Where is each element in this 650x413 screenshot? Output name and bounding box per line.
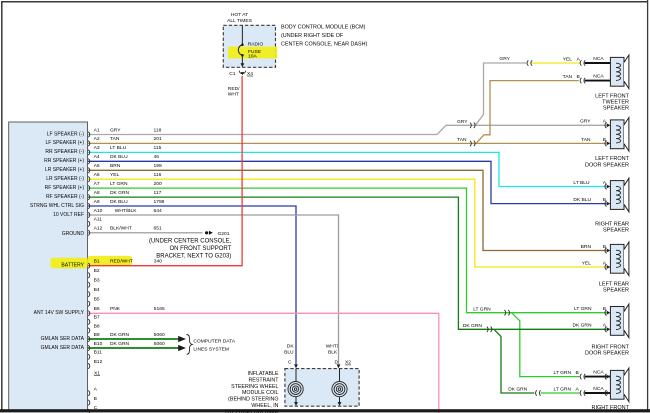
svg-text:C: C xyxy=(288,360,292,366)
svg-text:ON FRONT SUPPORT: ON FRONT SUPPORT xyxy=(170,246,232,252)
svg-text:SPEAKER: SPEAKER xyxy=(603,228,629,234)
svg-text:TAN: TAN xyxy=(110,136,120,142)
svg-text:RR SPEAKER (-): RR SPEAKER (-) xyxy=(45,149,84,155)
svg-text:LT GRN: LT GRN xyxy=(473,306,491,312)
svg-text:NCA: NCA xyxy=(593,370,604,376)
svg-text:RED/WHT: RED/WHT xyxy=(110,259,133,265)
svg-text:RIGHT REAR: RIGHT REAR xyxy=(595,222,629,228)
svg-text:LR SPEAKER (+): LR SPEAKER (+) xyxy=(45,167,84,173)
svg-text:LINES SYSTEM: LINES SYSTEM xyxy=(193,347,229,353)
svg-text:LT GRN: LT GRN xyxy=(554,386,572,392)
svg-text:A: A xyxy=(94,386,98,392)
svg-text:644: 644 xyxy=(154,208,162,214)
svg-text:TWEETER: TWEETER xyxy=(602,100,629,106)
svg-text:GMLAN SER DATA: GMLAN SER DATA xyxy=(41,345,85,351)
svg-text:B12: B12 xyxy=(94,359,103,365)
svg-text:BLK: BLK xyxy=(328,350,338,356)
svg-text:10A: 10A xyxy=(248,54,257,60)
svg-text:116: 116 xyxy=(154,172,162,178)
svg-text:NCA: NCA xyxy=(593,56,604,62)
svg-text:117: 117 xyxy=(154,190,162,196)
svg-text:LR SPEAKER (-): LR SPEAKER (-) xyxy=(46,176,84,182)
svg-text:ALL TIMES: ALL TIMES xyxy=(227,18,252,24)
svg-text:A: A xyxy=(603,260,607,266)
svg-text:YEL: YEL xyxy=(582,260,592,266)
svg-text:B3: B3 xyxy=(94,278,100,284)
svg-text:5060: 5060 xyxy=(154,332,165,338)
svg-text:651: 651 xyxy=(154,226,162,232)
svg-text:DOOR SPEAKER: DOOR SPEAKER xyxy=(585,162,629,168)
svg-text:B: B xyxy=(603,137,606,143)
svg-text:A: A xyxy=(603,323,607,329)
svg-text:118: 118 xyxy=(154,127,162,133)
svg-text:A: A xyxy=(577,56,581,62)
svg-text:STEERING WHEEL: STEERING WHEEL xyxy=(231,384,278,390)
svg-text:NCA: NCA xyxy=(593,386,604,392)
svg-text:B: B xyxy=(576,370,579,376)
svg-text:201: 201 xyxy=(154,136,162,142)
svg-text:B: B xyxy=(94,396,97,402)
svg-text:YEL: YEL xyxy=(110,172,120,178)
svg-text:5060: 5060 xyxy=(154,341,165,347)
svg-text:LT GRN: LT GRN xyxy=(554,370,572,376)
svg-text:A4: A4 xyxy=(94,154,100,160)
svg-text:RADIO: RADIO xyxy=(248,42,264,48)
svg-text:DK BLU: DK BLU xyxy=(110,154,128,160)
svg-text:B8: B8 xyxy=(94,323,100,329)
svg-text:WHT/BLK: WHT/BLK xyxy=(115,208,137,214)
svg-text:B9: B9 xyxy=(94,332,100,338)
svg-text:G201: G201 xyxy=(218,231,230,237)
svg-text:DK BLU: DK BLU xyxy=(110,199,128,205)
svg-text:PNK: PNK xyxy=(110,306,121,312)
svg-text:NCA: NCA xyxy=(593,74,604,80)
svg-text:D: D xyxy=(335,360,339,366)
svg-text:LT BLU: LT BLU xyxy=(110,145,127,151)
svg-text:ANT 14V SW SUPPLY: ANT 14V SW SUPPLY xyxy=(34,310,85,316)
svg-text:DK GRN: DK GRN xyxy=(110,190,129,196)
svg-text:B: B xyxy=(603,197,606,203)
svg-text:A: A xyxy=(576,386,580,392)
svg-text:MODULE COIL: MODULE COIL xyxy=(242,390,279,396)
svg-text:BODY CONTROL MODULE (BCM): BODY CONTROL MODULE (BCM) xyxy=(281,24,366,30)
svg-text:1798: 1798 xyxy=(154,199,165,205)
svg-text:C1: C1 xyxy=(229,71,236,77)
svg-text:A1: A1 xyxy=(94,127,100,133)
svg-text:A: A xyxy=(603,119,607,125)
svg-text:B2: B2 xyxy=(94,268,100,274)
svg-text:DOOR SPEAKER: DOOR SPEAKER xyxy=(585,351,629,357)
svg-text:(UNDER RIGHT SIDE OF: (UNDER RIGHT SIDE OF xyxy=(281,33,344,39)
svg-text:GMLAN SER DATA: GMLAN SER DATA xyxy=(41,336,85,342)
svg-text:INFLATABLE: INFLATABLE xyxy=(247,371,278,377)
svg-text:RIGHT FRONT: RIGHT FRONT xyxy=(592,405,630,411)
svg-text:B11: B11 xyxy=(94,350,103,356)
svg-text:A7: A7 xyxy=(94,181,100,187)
svg-text:WHT: WHT xyxy=(228,91,239,97)
svg-text:WHEEL, IN: WHEEL, IN xyxy=(251,403,278,409)
svg-text:LEFT FRONT: LEFT FRONT xyxy=(595,93,629,99)
svg-text:200: 200 xyxy=(154,181,162,187)
svg-text:CENTER CONSOLE, NEAR DASH): CENTER CONSOLE, NEAR DASH) xyxy=(281,41,367,47)
svg-text:LEFT FRONT: LEFT FRONT xyxy=(595,156,629,162)
svg-text:LT BLU: LT BLU xyxy=(573,180,590,186)
svg-text:A8: A8 xyxy=(94,190,100,196)
svg-text:LF SPEAKER (+): LF SPEAKER (+) xyxy=(46,140,85,146)
svg-text:B: B xyxy=(603,306,606,312)
svg-text:BATTERY: BATTERY xyxy=(61,263,84,269)
svg-text:WHT/: WHT/ xyxy=(326,344,339,350)
svg-text:LT GRN: LT GRN xyxy=(574,306,592,312)
svg-text:GRY: GRY xyxy=(499,56,510,62)
svg-text:RED/: RED/ xyxy=(228,86,240,92)
svg-text:A12: A12 xyxy=(94,226,103,232)
svg-text:46: 46 xyxy=(154,154,160,160)
svg-text:DK GRN: DK GRN xyxy=(110,341,129,347)
svg-text:TAN: TAN xyxy=(457,137,467,143)
svg-text:TAN: TAN xyxy=(581,137,591,143)
svg-text:B7: B7 xyxy=(94,315,100,321)
svg-text:B10: B10 xyxy=(94,341,103,347)
svg-text:RR SPEAKER (+): RR SPEAKER (+) xyxy=(44,158,84,164)
svg-text:(UNDER CENTER CONSOLE,: (UNDER CENTER CONSOLE, xyxy=(149,238,232,244)
svg-text:RF SPEAKER (+): RF SPEAKER (+) xyxy=(45,185,85,191)
svg-text:SPEAKER: SPEAKER xyxy=(603,288,629,294)
svg-text:BRN: BRN xyxy=(581,244,592,250)
svg-text:DK BLU: DK BLU xyxy=(573,197,591,203)
svg-text:5165: 5165 xyxy=(154,306,165,312)
svg-text:BRN: BRN xyxy=(110,163,121,169)
svg-text:10 VOLT REF: 10 VOLT REF xyxy=(53,212,84,218)
svg-text:HOT AT: HOT AT xyxy=(231,12,248,18)
svg-text:B: B xyxy=(577,74,580,80)
svg-text:GRY: GRY xyxy=(110,127,121,133)
svg-text:COMPUTER DATA: COMPUTER DATA xyxy=(193,339,235,345)
svg-text:DK GRN: DK GRN xyxy=(463,323,482,329)
svg-text:A5: A5 xyxy=(94,163,100,169)
svg-text:A11: A11 xyxy=(94,217,103,223)
svg-text:B: B xyxy=(603,244,606,250)
svg-text:A9: A9 xyxy=(94,199,100,205)
svg-text:DK: DK xyxy=(287,344,295,350)
svg-text:LF SPEAKER (-): LF SPEAKER (-) xyxy=(47,131,85,137)
svg-text:BLU: BLU xyxy=(284,350,294,356)
svg-text:B6: B6 xyxy=(94,306,100,312)
svg-text:DK GRN: DK GRN xyxy=(110,332,129,338)
svg-text:GRY: GRY xyxy=(580,119,591,125)
svg-text:RESTRAINT: RESTRAINT xyxy=(248,377,279,383)
svg-text:GROUND: GROUND xyxy=(62,231,85,237)
svg-text:A10: A10 xyxy=(94,208,103,214)
svg-text:A6: A6 xyxy=(94,172,100,178)
svg-text:B1: B1 xyxy=(94,259,100,265)
svg-text:DK GRN: DK GRN xyxy=(572,323,591,329)
svg-text:SPEAKER: SPEAKER xyxy=(603,106,629,112)
svg-text:GRY: GRY xyxy=(457,119,468,125)
svg-text:B5: B5 xyxy=(94,297,100,303)
svg-text:STRNG WHL CTRL SIG: STRNG WHL CTRL SIG xyxy=(30,203,84,209)
svg-text:STEERING COLUMN): STEERING COLUMN) xyxy=(225,409,279,413)
svg-text:199: 199 xyxy=(154,163,162,169)
svg-text:(BEHIND STEERING: (BEHIND STEERING xyxy=(228,397,278,403)
svg-text:B4: B4 xyxy=(94,287,100,293)
svg-text:115: 115 xyxy=(154,145,162,151)
svg-text:A3: A3 xyxy=(94,145,100,151)
svg-text:RIGHT FRONT: RIGHT FRONT xyxy=(592,344,630,350)
svg-text:TAN: TAN xyxy=(563,74,573,80)
svg-text:A2: A2 xyxy=(94,136,100,142)
svg-text:LEFT REAR: LEFT REAR xyxy=(599,282,629,288)
svg-text:YEL: YEL xyxy=(563,56,573,62)
svg-text:BRACKET, NEXT TO G203): BRACKET, NEXT TO G203) xyxy=(156,254,231,260)
svg-text:DK GRN: DK GRN xyxy=(508,387,527,393)
svg-text:A: A xyxy=(603,180,607,186)
svg-text:C: C xyxy=(94,405,98,411)
svg-text:RF SPEAKER (-): RF SPEAKER (-) xyxy=(46,194,84,200)
svg-text:LT GRN: LT GRN xyxy=(110,181,128,187)
svg-text:BLK/WHT: BLK/WHT xyxy=(110,226,132,232)
